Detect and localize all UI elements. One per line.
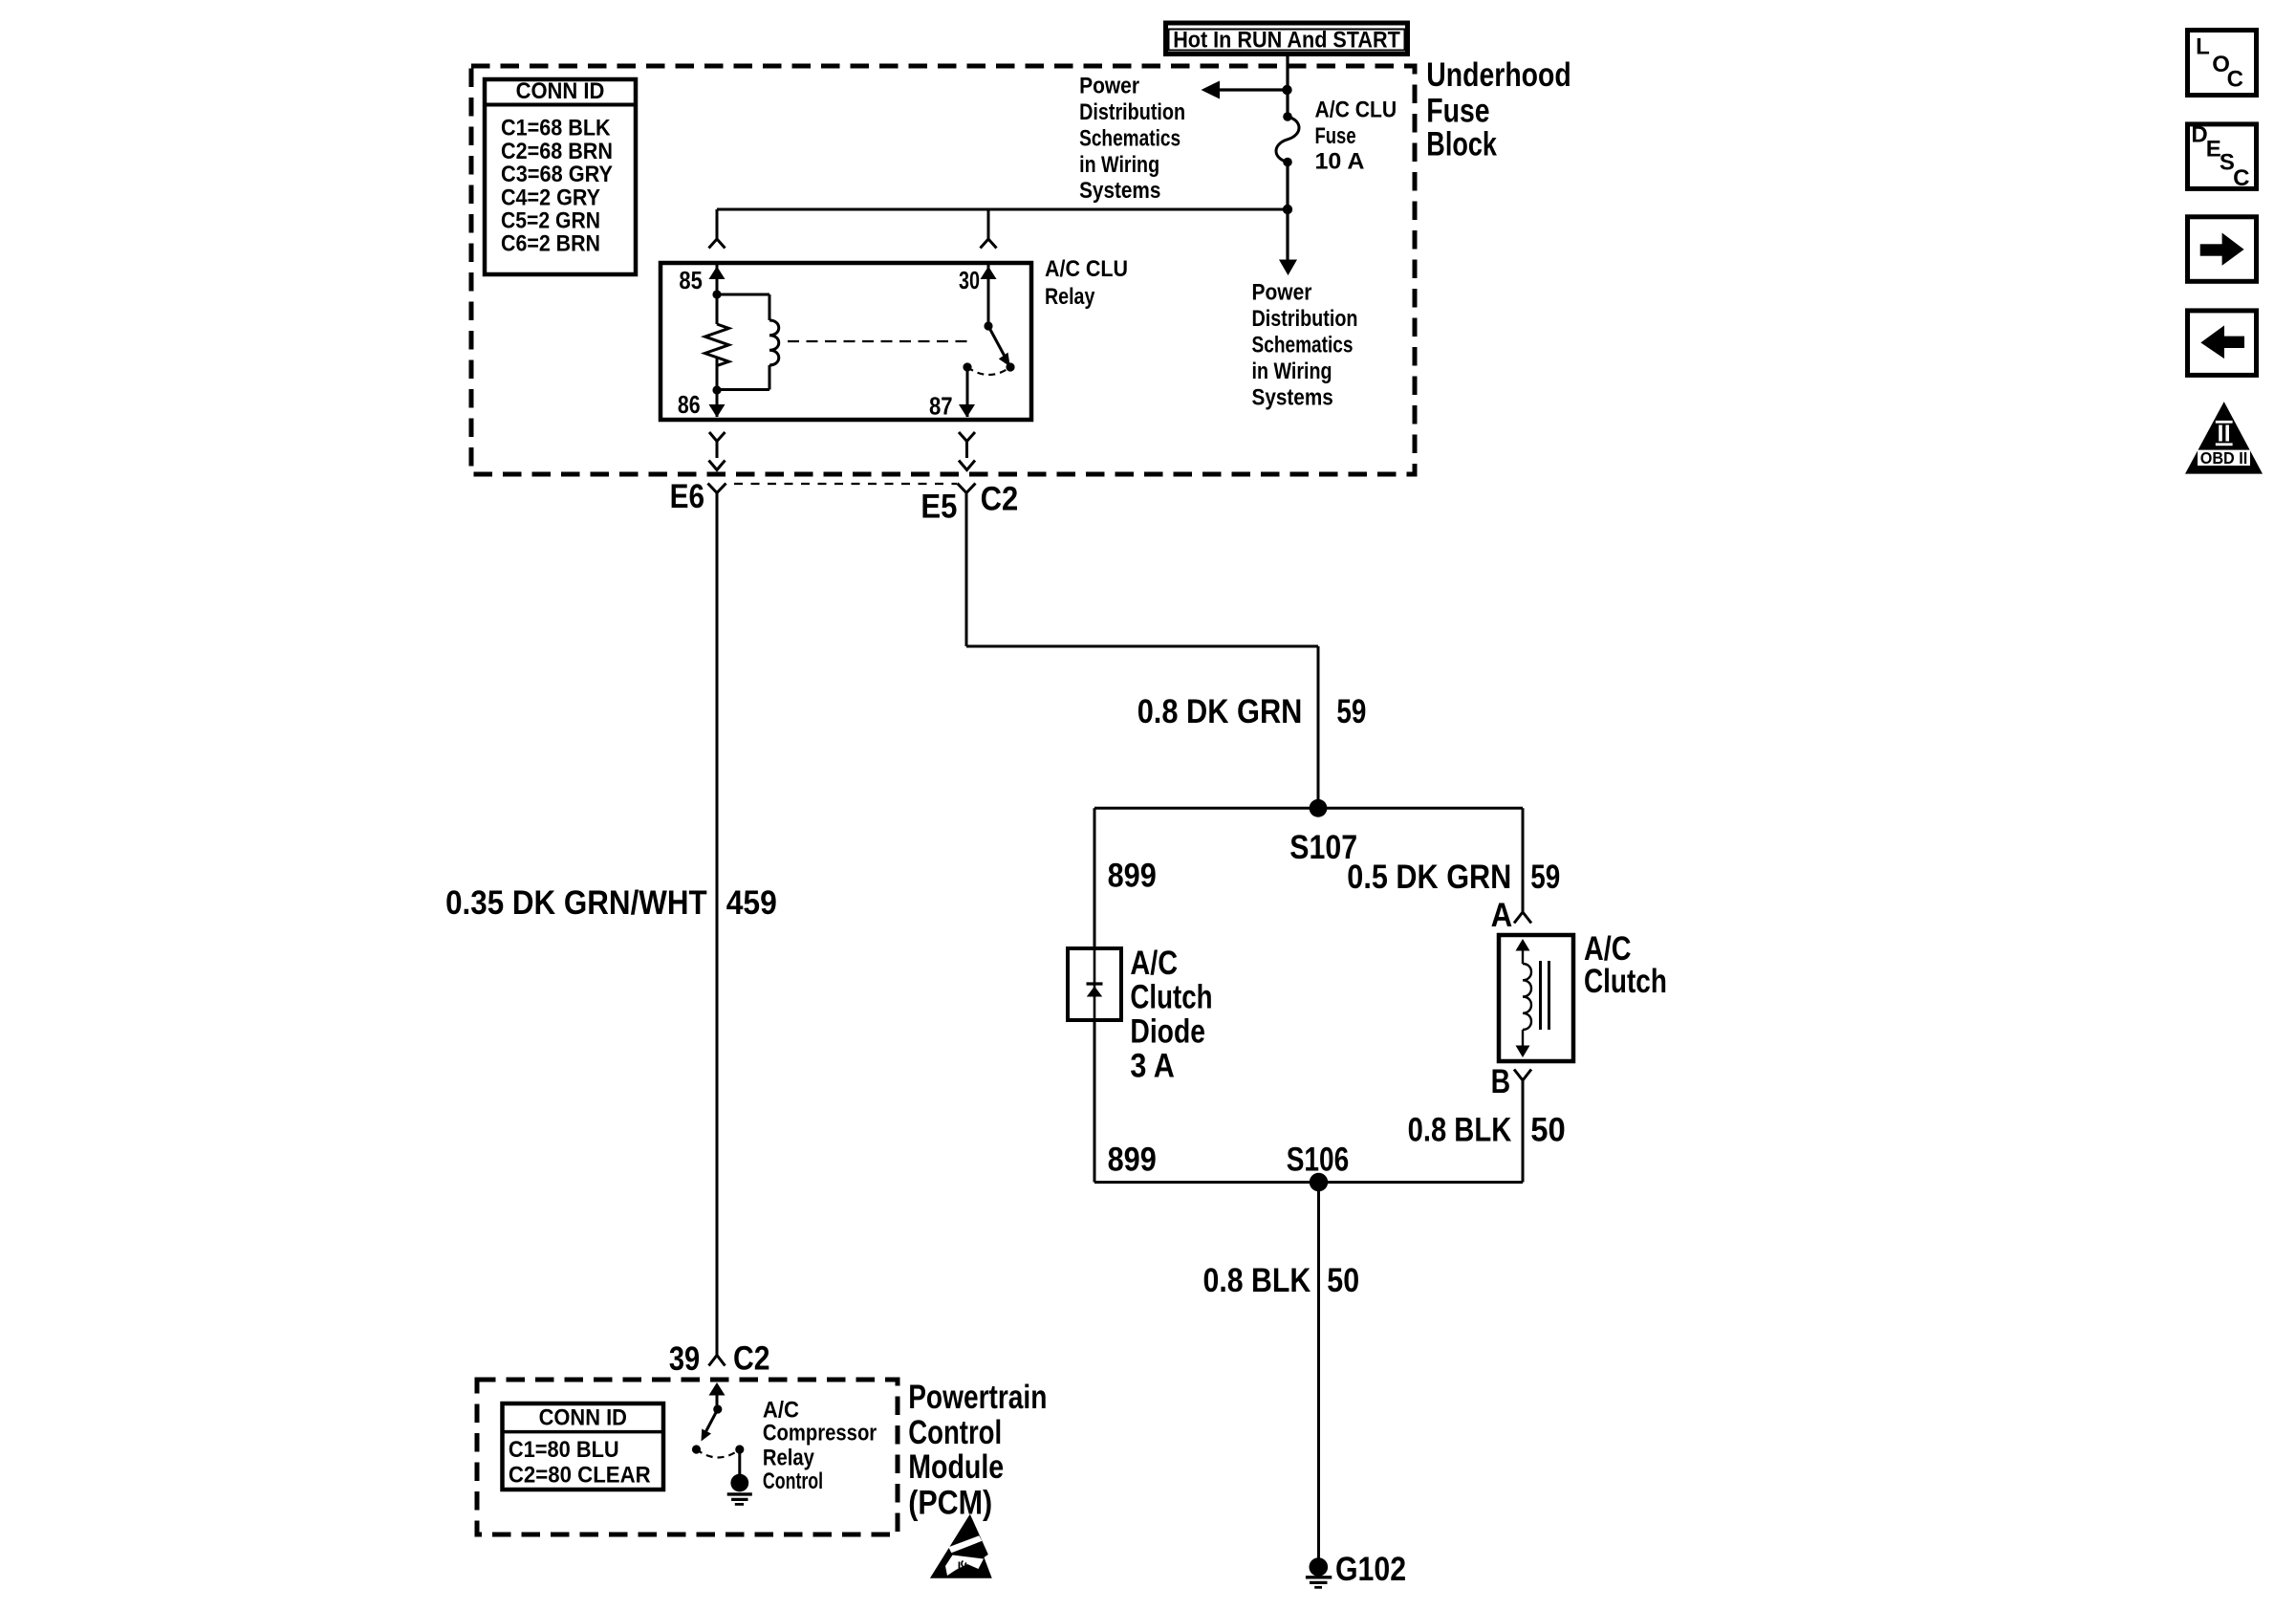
svg-text:0.5 DK GRN: 0.5 DK GRN [1347,859,1511,896]
svg-text:A/C: A/C [763,1397,799,1423]
svg-text:A/C CLU: A/C CLU [1315,98,1397,123]
Underhood Fuse Block dashed box [471,66,1415,474]
A/C CLU Relay label [1045,256,1128,310]
svg-text:Control: Control [908,1414,1002,1451]
wire stub down to relay pin 85 socket [716,209,719,239]
relay socket terminal (pin 87 side) [959,432,975,470]
A/C Clutch Diode 3 A label [1130,945,1212,1085]
relay actuation dashed link [788,340,971,342]
svg-text:3 A: 3 A [1130,1048,1175,1085]
dashed connector tie line E6-E5 [734,483,957,485]
svg-text:Control: Control [763,1469,823,1494]
A/C clutch diode box [1068,948,1121,1020]
svg-text:C2=80 CLEAR: C2=80 CLEAR [509,1463,651,1489]
forward navigation icon [2188,217,2257,281]
svg-text:C1=68 BLK: C1=68 BLK [501,116,611,141]
svg-text:899: 899 [1108,858,1157,895]
Powertrain Control Module dashed box [477,1380,898,1534]
svg-text:0.8 BLK: 0.8 BLK [1203,1262,1311,1299]
svg-text:OBD II: OBD II [2200,448,2248,468]
clutch plates [1541,961,1549,1030]
wire junction to fuse [1286,90,1289,117]
svg-text:CONN ID: CONN ID [539,1405,627,1431]
A/C Clutch box [1499,935,1573,1061]
svg-text:Compressor: Compressor [763,1421,877,1447]
svg-text:B: B [1491,1063,1511,1100]
dashed throw arc [967,367,1010,375]
Powertrain Control Module (PCM) label [908,1379,1047,1522]
svg-text:in Wiring: in Wiring [1079,152,1159,178]
svg-text:Fuse: Fuse [1315,123,1356,149]
splice S106 [1310,1173,1328,1191]
clutch coil element [1516,939,1532,1057]
ESD sensitive symbol [930,1514,1005,1579]
PCM internal ground [727,1474,752,1505]
svg-text:Systems: Systems [1079,178,1160,204]
wire S107 right branch [1318,808,1523,912]
svg-text:Distribution: Distribution [1079,99,1185,125]
A/C Clutch label [1584,930,1667,1000]
svg-text:C4=2 GRY: C4=2 GRY [501,185,600,210]
relay pin 30 terminal arrow and switch pivot [981,265,997,331]
dashed throw arc (PCM) [697,1449,740,1458]
LOC navigation icon [2188,31,2257,96]
A/C Compressor Relay Control label [763,1397,877,1494]
relay pin 85 terminal arrow [709,265,726,294]
PCM internal switch pivot [713,1404,722,1413]
svg-text:87: 87 [929,391,953,420]
arrow down to Power Distribution schematics [1279,209,1297,275]
resistor (relay) [705,294,729,390]
wire B down to S106 row [1319,1080,1524,1183]
connector C2 cavity E5 female terminal [958,484,976,493]
svg-text:0.35 DK GRN/WHT: 0.35 DK GRN/WHT [445,884,707,922]
svg-text:in Wiring: in Wiring [1252,359,1332,384]
connector C2 pin 39 female terminal [709,1356,726,1366]
svg-text:A/C CLU: A/C CLU [1045,256,1128,282]
relay coil (parallel branch) [717,294,779,390]
wire E5 down and over to S107 [966,493,1318,809]
svg-text:Powertrain: Powertrain [908,1379,1047,1416]
svg-text:A: A [1491,897,1513,934]
A pin female terminal [1514,912,1531,924]
svg-text:39: 39 [669,1340,700,1378]
A/C CLU relay box [661,263,1031,420]
connector C2 cavity E6 female terminal [708,484,726,493]
svg-text:C2: C2 [981,480,1019,517]
svg-text:85: 85 [679,266,702,294]
PCM driver terminal arrow [709,1382,726,1409]
wire fuse down to bus junction [1286,163,1289,210]
svg-text:Hot In RUN And START: Hot In RUN And START [1173,28,1400,54]
OBD II symbol [2185,402,2263,474]
svg-text:C3=68 GRY: C3=68 GRY [501,162,613,187]
svg-text:Fuse: Fuse [1426,93,1489,130]
wire from Hot In RUN box down to junction [1286,55,1289,90]
svg-text:459: 459 [726,884,777,922]
CONN ID table (PCM) [501,1403,666,1490]
svg-text:0.8 DK GRN: 0.8 DK GRN [1137,693,1303,730]
svg-text:Clutch: Clutch [1584,963,1667,1000]
A/C CLU Fuse label [1315,98,1397,175]
svg-text:(PCM): (PCM) [908,1485,992,1522]
svg-text:Schematics: Schematics [1079,126,1180,152]
svg-text:Module: Module [908,1448,1004,1486]
svg-text:CONN ID: CONN ID [516,78,605,104]
svg-text:Power: Power [1252,280,1312,306]
female connector above relay pin 85 [709,239,726,249]
back navigation icon [2188,311,2257,376]
svg-text:59: 59 [1530,859,1560,896]
svg-text:10 A: 10 A [1315,149,1365,175]
female connector above relay pin 30 [981,239,997,249]
svg-text:Systems: Systems [1252,384,1333,410]
svg-text:C: C [2233,165,2249,191]
junction node at fuse feed [1282,85,1291,95]
relay socket terminal (pin 86 side) [709,432,726,470]
svg-text:G102: G102 [1335,1551,1406,1588]
Power Distribution Schematics text (upper left) [1079,73,1185,204]
wire S106 to G102 [1317,1183,1320,1560]
Underhood Fuse Block label [1426,56,1570,163]
svg-text:A/C: A/C [1130,945,1178,982]
horizontal bus wire to relay [717,208,1288,211]
wire to internal ground [738,1449,741,1483]
wire stub down to relay pin 30 socket [987,209,990,239]
svg-text:Power: Power [1079,73,1139,98]
PCM switch contact (right) [735,1445,744,1453]
Power Distribution Schematics text (lower) [1252,280,1358,411]
svg-text:E5: E5 [921,488,957,525]
PCM switch contact (left) [692,1445,701,1453]
svg-text:C2: C2 [733,1339,770,1377]
relay coil top node [712,290,721,298]
junction node on bus [1283,205,1292,214]
svg-text:C1=80 BLU: C1=80 BLU [509,1437,619,1463]
svg-text:Clutch: Clutch [1130,978,1212,1015]
wire diode down to S106 row [1094,1020,1319,1183]
wire arrow to Power Distribution (left) [1202,81,1289,99]
svg-text:Distribution: Distribution [1252,306,1358,332]
fuse F (A/C CLU Fuse 10 A) [1276,112,1299,166]
svg-text:E6: E6 [670,478,704,515]
svg-text:50: 50 [1530,1112,1566,1149]
svg-text:Schematics: Schematics [1252,333,1354,359]
svg-text:899: 899 [1108,1142,1157,1179]
relay pin 87 terminal arrow [959,367,975,418]
svg-text:L: L [2196,34,2210,60]
relay coil bottom node [712,385,721,394]
diode element [1087,948,1103,1020]
svg-text:Underhood: Underhood [1426,56,1570,94]
relay pin 87 contact [963,362,971,371]
svg-text:Block: Block [1426,126,1497,163]
svg-text:86: 86 [678,390,701,419]
svg-text:50: 50 [1327,1262,1359,1299]
svg-text:S106: S106 [1287,1141,1350,1178]
Hot In RUN And START feed box [1166,23,1408,54]
svg-text:0.8 BLK: 0.8 BLK [1408,1112,1512,1149]
PCM internal switch arm [702,1409,718,1442]
relay pin 86 terminal arrow [709,390,726,418]
B pin female terminal [1514,1070,1531,1081]
svg-text:Relay: Relay [1045,284,1095,310]
svg-text:C2=68 BRN: C2=68 BRN [501,139,613,164]
wire S107 left branch [1094,808,1318,948]
CONN ID table (underhood fuse block) [483,78,638,274]
DESC navigation icon [2188,122,2257,191]
svg-text:C: C [2227,66,2243,92]
wire E6 to PCM [716,493,719,1356]
svg-text:Diode: Diode [1130,1013,1205,1051]
relay switch arm [988,326,1015,372]
svg-text:C5=2 GRN: C5=2 GRN [501,208,600,234]
svg-text:59: 59 [1336,693,1366,730]
splice S107 [1310,799,1328,817]
svg-text:C6=2 BRN: C6=2 BRN [501,231,600,257]
ground G102 [1306,1557,1332,1587]
svg-text:30: 30 [959,266,980,294]
svg-text:Relay: Relay [763,1446,815,1471]
